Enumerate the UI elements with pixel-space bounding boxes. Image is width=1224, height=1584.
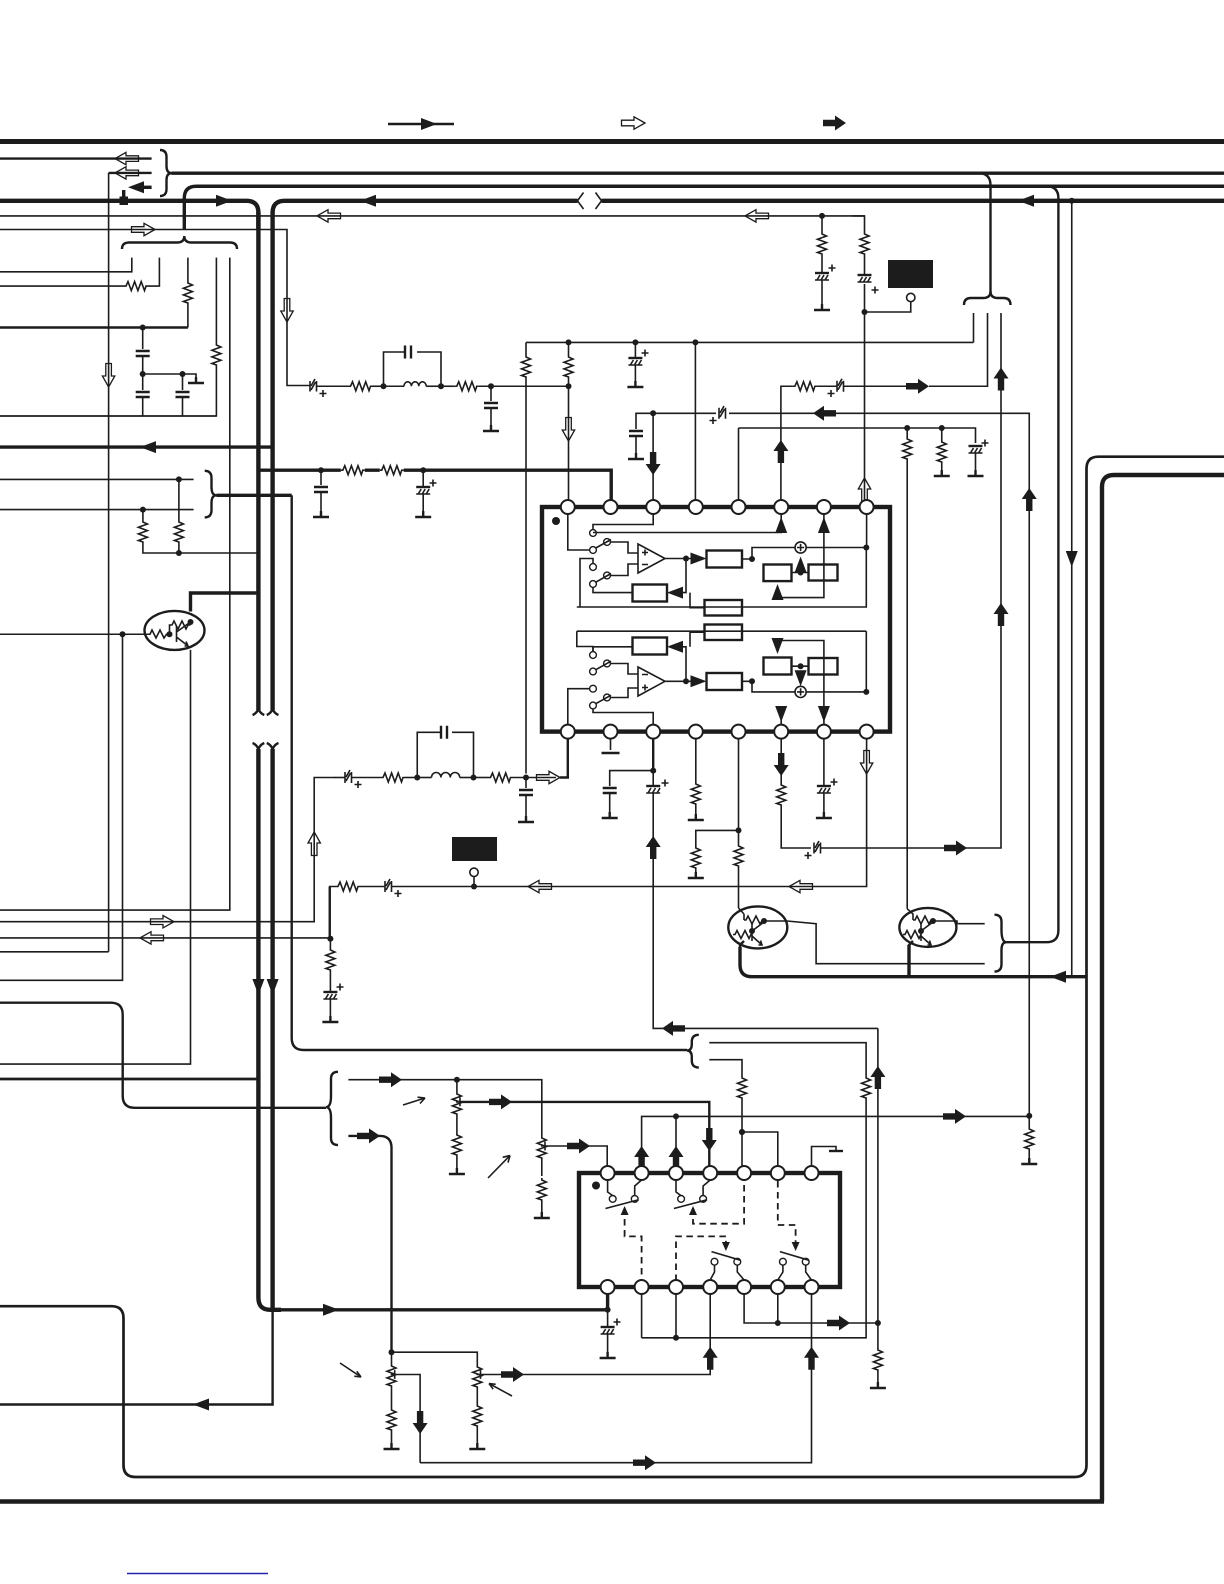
- junction x907.2 on y428: [904, 425, 910, 431]
- polarized cap x975.5 to ground: [968, 440, 989, 477]
- thick bus from bus1 to pin2 top corner: [258, 470, 611, 500]
- arrow into block out1: [691, 553, 707, 565]
- junction x417.25: [414, 775, 420, 781]
- medium wire y1002.7 corner down x122.7 to y1107.8 thick: [0, 1003, 326, 1108]
- annotation arrow at pot3: [340, 1363, 361, 1377]
- resistor x330 down, pol cap, ground: [322, 939, 343, 1022]
- hollow left arrow on y887 at x540: [528, 880, 552, 892]
- tap from bus y186.25 down at x1058.4 (line A) to thick brace feed: [1006, 186, 1058, 942]
- resistor x568.5: [564, 342, 573, 500]
- switch C upper contact wire: [577, 631, 593, 651]
- junction x456.9 y1079.7: [454, 1077, 460, 1083]
- annotation arrow at pot1: [403, 1097, 425, 1105]
- IC2 bottom pins: [601, 1280, 615, 1294]
- hollow right arrow on y229.5: [132, 223, 156, 235]
- bus1 lower segment: [253, 743, 265, 749]
- wire y215.9 full to corner x864.5: [0, 215, 865, 217]
- wire y887 continues left: [392, 886, 528, 888]
- sum circle 1: [795, 542, 806, 553]
- resistor 2 on y470: [380, 466, 404, 475]
- block pair B2b: [809, 658, 838, 675]
- junction of line B on bus: [1069, 198, 1075, 204]
- pot2: [537, 1136, 546, 1176]
- brace branch top to x866 column: [709, 1043, 866, 1076]
- inductor x432-460: [417, 773, 473, 778]
- resistor x742: [738, 1076, 747, 1166]
- Q3 internals: [903, 909, 936, 947]
- internal switch S3: [710, 1252, 744, 1280]
- IC1 pin1 marker dot: [552, 517, 560, 525]
- Q1 emitter wire down to y1064: [0, 650, 191, 1064]
- resistor 1 on y470: [341, 466, 365, 475]
- resistor branch x822 from y215.9: [814, 213, 836, 310]
- switch A top throw wire to pin3: [593, 514, 653, 530]
- stub2 x159.4 with series resistor to left edge: [0, 258, 159, 291]
- junction y830.4: [736, 827, 742, 833]
- horizontal brace under x990.5: [964, 292, 1011, 306]
- down arrowhead on line B: [1066, 551, 1078, 567]
- junction x142.9: [140, 507, 146, 513]
- switch C throw to opamp2 - input: [610, 664, 638, 675]
- up arrowhead on x1029.25: [1022, 488, 1037, 511]
- switch B upper contact wire: [580, 559, 593, 608]
- branch right to pin6 top of IC2: [742, 1132, 778, 1166]
- branch2 with right block arrow, thick corner down x391.5: [348, 1128, 391, 1352]
- IC2 pin7 top ground: [812, 1147, 844, 1167]
- resistor h at 348.5: [349, 382, 373, 391]
- Q1 ellipse: [145, 611, 205, 650]
- junction x441: [438, 383, 444, 389]
- switch D: [590, 685, 611, 709]
- Q2 base wire out right: [764, 921, 985, 964]
- center blocks left stubs: [690, 593, 705, 647]
- wire y509.6: [0, 509, 194, 511]
- sum2 right arm to pin8 column: [806, 689, 869, 695]
- thick bus y447.1 with left arrowhead: [0, 441, 272, 453]
- opamp1 output node: [665, 556, 695, 562]
- chain2 from corner x314 (drawn above) inline polarized cap: [333, 770, 381, 788]
- junction x391.5 y1352.2: [389, 1349, 395, 1355]
- Q1 base junction x122.5: [120, 631, 126, 637]
- junction x321 cap to ground: [313, 467, 329, 517]
- junction x474 y887 with open terminal above: [470, 868, 478, 889]
- solid left block arrow on y413.3: [813, 406, 836, 421]
- pin6 bottom internal down arrow: [775, 706, 787, 725]
- right brace grouping three stubs: [160, 150, 172, 196]
- pin4 bottom resistor to ground: [688, 739, 704, 820]
- black label box: [888, 260, 933, 288]
- resistor x178.9 down to y553: [174, 479, 183, 553]
- bottom thick border: [0, 1499, 1104, 1503]
- right block arrow on y1116.4: [943, 1109, 966, 1124]
- thick wire y1309.8 from bus1 corner to pin1 with right arrowhead: [281, 1304, 608, 1316]
- branch right to pot4 top: [392, 1352, 478, 1365]
- out2 to sum2 left arm: [742, 681, 795, 692]
- junction between pair: [792, 570, 809, 576]
- block pair B2a: [809, 565, 838, 581]
- out1 to sum1 left arm: [742, 548, 795, 560]
- x864.5 vertical from y215.9 corner down to pin8 top: [853, 216, 865, 500]
- junction x182.5: [180, 371, 186, 377]
- brace at x687 for y1050 line: [687, 1035, 699, 1068]
- junction x383.5: [381, 383, 387, 389]
- block pair B1b: [764, 658, 792, 675]
- up arrowhead on stub C at y615: [994, 603, 1009, 626]
- hollow down arrow on x108.6: [102, 364, 114, 388]
- line B x1071.75 from bus y200.8 down to emitter bus y976.7: [1071, 201, 1073, 977]
- thick bus y1107.1 into brace cusp drawn above; branch1 with right block arrow: [348, 1072, 457, 1087]
- IC1 top pins: [561, 500, 575, 514]
- black box 2: [452, 837, 497, 861]
- pot3: [387, 1352, 396, 1408]
- S4 dashed control from pin6 top: [778, 1181, 800, 1251]
- wire y413.3 main run: [648, 413, 1029, 1116]
- branch1 continues right, corner down x541.8 to pot2: [457, 1080, 542, 1136]
- Q3 ellipse: [899, 908, 956, 947]
- pin4 bottom with up arrow to corner y1374.5: [524, 1294, 718, 1375]
- pot4 wiper line with right block arrow to pin4 wire: [481, 1367, 525, 1382]
- medium outer loop wire: left entry y1306.2, down x123.5, bottom y1477, up right side x1086.5, exit top right y456.7: [0, 457, 1224, 1477]
- hollow down arrow on x287: [281, 299, 293, 323]
- inductor x404.75-426: [384, 382, 442, 386]
- main bus y186.25 with left corner down: [184, 186, 1224, 230]
- S1 dashed control from bottom pin2: [621, 1206, 642, 1281]
- main bus y173.2: [172, 171, 1224, 174]
- junction x877.9 y1323 with resistor to ground: [870, 1320, 886, 1388]
- right block arrow on y848: [944, 841, 967, 856]
- junction pin3 top column: [669, 1113, 684, 1169]
- pot4 lower resistor to ground: [469, 1404, 485, 1449]
- tap from bus y173.2 down at x990.5 to horizontal brace: [979, 173, 991, 293]
- arrow into fb2 from output node: [667, 641, 686, 682]
- S2 dashed control from pin5 top: [689, 1181, 744, 1224]
- left block arrow on y1028.4: [662, 1021, 685, 1036]
- pin2 bottom ground stub: [602, 739, 620, 753]
- hollow up arrow on x314.2: [308, 832, 320, 856]
- cap2 at x142.7: [136, 374, 150, 416]
- wire to junction: [405, 777, 417, 779]
- blue underline at bottom: [127, 1573, 268, 1575]
- inline polarized cap on y413.3: [710, 406, 726, 424]
- junction x423.2 pol cap to ground: [415, 467, 436, 517]
- pin3 bottom inline polarized cap: [646, 780, 668, 794]
- solid right block arrow feeding stub B: [906, 379, 929, 394]
- center block row1: [705, 600, 743, 616]
- junction between lower pair: [792, 663, 809, 669]
- resistor h at 454.75: [441, 382, 569, 391]
- junction x1029.25 y1115.9 with resistor to ground: [1021, 1113, 1037, 1164]
- left arrowhead on y200.8 at x369: [360, 195, 376, 207]
- P2 vertical x291.7 down to y1050 corner: [292, 495, 687, 1050]
- x329.75 column down to junction y938.8: [329, 887, 331, 939]
- pin6-top riser chain: corner at x780.9 y386.25, resistor, pol cap, to arrow: [773, 379, 906, 500]
- switch D bottom wire to pin3 bottom: [593, 709, 653, 725]
- long vertical x108.6: [0, 173, 109, 952]
- block out1: [707, 551, 743, 568]
- thick L wire with solid left arrow y187.3: [120, 181, 152, 205]
- right solid arrowhead on y200.8: [216, 195, 232, 207]
- Q1 collector thick wire to bus1: [191, 593, 259, 612]
- legend hollow block arrow: [622, 117, 646, 129]
- junction y374: [140, 371, 146, 377]
- fb2 left wire to switch C common: [593, 647, 633, 652]
- bus1 down arrowhead: [252, 979, 264, 995]
- polarized cap on x864.5: [858, 275, 879, 294]
- feedback block fb1: [633, 585, 668, 602]
- resistor x142.9 down to y553: [138, 510, 258, 553]
- Q3 base wire out right: [933, 921, 985, 924]
- junction x526 y774.5 (cap below): [518, 775, 534, 823]
- sum1 right arm to pin8 column: [806, 547, 866, 549]
- switch B: [590, 564, 611, 588]
- hollow left arrow on y215.9 at x755: [745, 210, 769, 222]
- junction x178.9 y553: [176, 550, 182, 556]
- IC2 top pins: [601, 1166, 615, 1180]
- open terminal circle with stem to y312: [865, 293, 915, 312]
- bus2 thin continuation to corner y1404.5 and left arrow line: [0, 1310, 273, 1411]
- hollow down arrow on x568.5: [562, 418, 574, 442]
- x568.5 junction on y342: [566, 339, 572, 345]
- wire y327.5: [0, 326, 188, 328]
- lower half: long line y631 to pin8 column: [577, 631, 867, 692]
- inline polarized cap on y887: [385, 879, 402, 897]
- switch A: [590, 530, 611, 554]
- pin7 internal: up arrow + column to B1a bottom: [772, 514, 830, 600]
- IC2 body: [579, 1173, 840, 1287]
- wire y229.5 cornering down at x287: [0, 230, 310, 386]
- annotation arrow at pot2: [488, 1156, 510, 1179]
- resistor h x488.5: [474, 773, 557, 782]
- pot1 wiper line with right block arrow to IC2 pin4: [460, 1094, 717, 1166]
- arrow into block out2: [691, 675, 707, 687]
- branch to ground via x182: [143, 374, 196, 377]
- opamp2 output node: [665, 678, 695, 684]
- brace stub B x987.5 to chain arrow y386.25: [929, 313, 988, 386]
- junction x941.75 with resistor to ground: [934, 425, 950, 476]
- feedback block fb2: [633, 638, 668, 655]
- junction y938.8: [327, 936, 333, 942]
- junction x695.4 on y342, wire down to pin4 top: [692, 339, 698, 500]
- annotation arrow at pot4: [489, 1384, 512, 1397]
- pin5 bottom column: [738, 739, 740, 831]
- brace stub A x973.5 to wire y342.4: [973, 313, 975, 342]
- wire to junction: [373, 385, 384, 387]
- left arrowhead on y200.8 at x1026: [1018, 195, 1034, 207]
- resistor on x864.5: [860, 232, 869, 256]
- switch A throw to opamp1 + input: [610, 542, 638, 553]
- pin5 bottom resistor to Q2 collector: [734, 830, 743, 908]
- hollow left arrow on y215.9 at x327: [317, 210, 341, 222]
- junction on pin8 column: [863, 545, 869, 551]
- junction x178.9: [176, 476, 182, 482]
- pin5/6 bottom wire y1323 with right block arrow to junction x877.9: [744, 1294, 878, 1331]
- sum2 top arrow from block pair junction: [795, 670, 807, 686]
- hollow left arrow on y887 at x800: [789, 880, 813, 892]
- pin1 bottom thick stub to chain2: [560, 739, 568, 778]
- pot3 lower resistor to ground: [384, 1408, 400, 1449]
- junction x491 with cap to ground: [483, 383, 499, 431]
- branch left to cap x609.7: [602, 771, 654, 818]
- pot4: [473, 1365, 482, 1404]
- bus2 lower segment to y1404: [267, 743, 279, 749]
- junction x568.5 y386.25 chain1 joins: [566, 383, 572, 389]
- wire y428 from pin5 corner to x975.5: [739, 428, 976, 500]
- pin7 bottom with up arrow to corner y1462.7: [420, 1294, 819, 1463]
- junction x653.1: [650, 410, 656, 416]
- resistor h x381: [381, 773, 405, 782]
- bus y200.8 left segment into bus1: [0, 201, 258, 230]
- IC2 pin1 marker dot: [592, 1182, 600, 1190]
- switch C: [590, 652, 611, 675]
- Q2 ellipse: [728, 906, 787, 948]
- hollow up arrow on x864.5 wire (pin8 top feed): [858, 478, 870, 502]
- IC1 body: [542, 507, 890, 732]
- IC2 pin1 bottom thick stub to y1309.8: [606, 1294, 609, 1310]
- internal switch S4: [778, 1252, 812, 1280]
- stub3 x187.9 with resistor down to y327 line: [183, 258, 192, 328]
- bus y200.8 right segment from bus2: [273, 201, 1224, 213]
- pin3 bottom column continues with up arrow to corner y1028.4: [646, 771, 878, 1029]
- bus2 down arrowhead: [267, 979, 279, 995]
- cap stack from y327 junction: cap1: [136, 328, 150, 375]
- internal switch S2: [674, 1180, 710, 1209]
- pot1 lower resistor to ground: [449, 1133, 465, 1174]
- block out2: [707, 673, 743, 690]
- fb1 left wire to switch B common: [593, 587, 633, 592]
- junction y1309.8: [605, 1307, 611, 1313]
- pin6 internal: up arrow + wire left to switch A mid: [593, 514, 787, 533]
- wire y172.9: [109, 172, 152, 174]
- thick line from brace cusp to P2 vertical: [217, 494, 292, 497]
- inner thick border: from right edge y475 around to bottom border: [1102, 475, 1224, 1502]
- pot2 lower resistor to ground: [534, 1178, 550, 1218]
- wire y937.9 with hollow left arrow to junction x330.4: [0, 932, 330, 944]
- pin8 bottom hollow down arrow to corner y887: [528, 739, 873, 887]
- S3 dashed control from bottom pin3: [676, 1236, 730, 1281]
- cap3 at x182.5: [176, 374, 190, 416]
- bridge cap above chain2: [417, 726, 473, 778]
- Q1 base wire y634.25: [0, 633, 148, 635]
- bus2 x272.6 upper segment with break: [270, 212, 274, 710]
- pin7 bottom internal: down arrow + column to B1b top: [772, 638, 830, 725]
- pin2/pin3 bottom wire y1337.8 corner up x865.6 (joins x866 column): [642, 1294, 679, 1341]
- center block row2: [705, 625, 743, 641]
- brace stub C x1001 long vertical: [989, 313, 1001, 848]
- stub4 x216.4 resistor chain to y416: [0, 258, 221, 416]
- horizontal brace under x184: [122, 236, 237, 249]
- sum1 bottom arrow from block pair junction: [795, 557, 807, 573]
- Q1 internals: [148, 619, 194, 646]
- pot3 wiper with down block arrow to y1462.7: [395, 1375, 428, 1463]
- junction on y327.5: [140, 325, 146, 331]
- x877.9 corner down with up arrow to junction y1323: [870, 1028, 885, 1323]
- junction x635.4 on y342 with pol cap to ground: [627, 339, 648, 387]
- arrow into fb1 from output node: [667, 559, 686, 599]
- IC2 pin2/3 top feed line y1116.4 with right block arrow: [634, 1116, 1029, 1169]
- pin1 bottom internal to switch D: [568, 689, 590, 725]
- pin8 internal column: [577, 514, 867, 607]
- stub5 x229.8 long vertical to y910: [0, 258, 230, 911]
- bus1 x258.4 upper segment with break: [256, 212, 260, 710]
- junction at 752,559: [749, 556, 755, 562]
- thick emitter bus y976.7: [740, 945, 1087, 983]
- up arrowhead on stub C at y378: [994, 368, 1009, 391]
- IC1 bottom pins: [561, 725, 575, 739]
- solid down block arrow to pin3 top: [646, 413, 661, 500]
- inline polarized cap on y848: [805, 841, 990, 859]
- op-amp U1a: [638, 544, 665, 573]
- top border line: [0, 139, 1224, 144]
- junction pin3 bottom y770.6: [650, 768, 656, 774]
- pin3 bottom column with branch: [652, 739, 654, 771]
- pot2 wiper line with right block arrow to IC2 pin1 top: [545, 1139, 607, 1167]
- break symbol on bus y200.8: [578, 193, 602, 210]
- wire y342.4 from corner x526 to stub A x973.5: [526, 342, 974, 355]
- thick wire y1079 from left to bus1: [0, 1078, 258, 1081]
- brace for Q2/Q3 base lines: [995, 915, 1007, 972]
- hollow right arrow on chain2 output: [537, 771, 561, 783]
- junction x473.5: [471, 775, 477, 781]
- block pair B1a: [764, 565, 792, 582]
- IC2 pin5 top junction and branch handled; internal switch S1: [606, 1180, 642, 1209]
- IC1 internal: pin1 feed to switch A: [568, 514, 590, 550]
- legend arrow (thin line with solid head): [388, 118, 454, 130]
- inline polarized cap at x314: [310, 379, 349, 397]
- branch left to resistor2 x695.8: [688, 830, 739, 878]
- ground at 196,377: [188, 377, 204, 383]
- hollow arrow left on y158.6: [115, 152, 139, 164]
- op-amp U1b: [638, 667, 665, 696]
- brace branch bottom to x742 column: [709, 1060, 742, 1076]
- resistor x866.1: [642, 1076, 871, 1338]
- pot1 (semi-fixed resistor): [452, 1080, 461, 1133]
- x122.5 vertical from base junction to y980: [0, 634, 123, 980]
- wire y416 continues under caps: [0, 415, 216, 417]
- corner cap x636 to ground: [628, 413, 648, 459]
- hollow arrow left on y172.9: [115, 167, 139, 179]
- pin6 bottom: down arrow, resistor, corner right y848: [774, 739, 811, 848]
- IC2 pin5 top junction dot: [739, 1129, 745, 1135]
- wire y479.4: [0, 478, 194, 480]
- sum circle 2: [795, 686, 806, 697]
- resistor h on y887: [330, 882, 385, 893]
- junction at 752,681.3: [749, 678, 755, 684]
- Q2 internals: [733, 908, 767, 948]
- right block arrow on y1462.7: [633, 1455, 656, 1470]
- junction x864.5 y312: [862, 309, 868, 315]
- wire y921.7 with hollow right arrow, corner up x314.2: [0, 778, 333, 928]
- right brace for y479/y509 pair: [205, 471, 217, 518]
- switch B throw to opamp1 - input: [610, 564, 638, 576]
- bridge cap above inductor: [384, 346, 442, 387]
- stub1 x131.8: [0, 258, 132, 272]
- switch D throw to opamp2 + input: [610, 688, 638, 698]
- legend solid block arrow: [823, 116, 846, 131]
- wire y158.6: [0, 157, 152, 159]
- resistor x907.2 down (to Q3 collector): [903, 428, 912, 909]
- pol cap below pin1 bottom: [600, 1310, 621, 1358]
- pin7 bottom cap to ground: [816, 739, 838, 818]
- junction x742/744 y1132: [739, 1129, 745, 1135]
- resistor x526 down: [522, 355, 531, 774]
- thick wire y1107.8 handled above; brace cusp at 326.1: [326, 1072, 338, 1145]
